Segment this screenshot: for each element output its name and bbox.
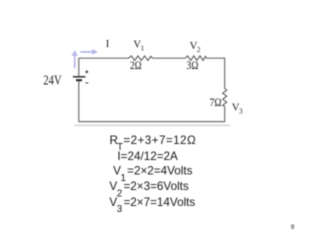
current arrow up <box>72 50 78 68</box>
svg-text:V3: V3 <box>232 102 243 116</box>
wire between R1 and R2 <box>153 57 186 59</box>
svg-text:V1: V1 <box>133 39 144 53</box>
svg-text:V3=2×7=14Volts: V3=2×7=14Volts <box>109 196 195 215</box>
svg-text:V2: V2 <box>190 40 201 54</box>
wire top-left to R1 <box>79 58 129 77</box>
battery B1 short plate (-) <box>76 79 82 81</box>
faint picture-border line below circuit <box>75 124 231 126</box>
svg-text:24V: 24V <box>43 72 61 87</box>
resistor R2 3ohm zigzag <box>185 56 206 61</box>
resistor R3 7ohm zigzag <box>223 89 227 107</box>
svg-text:7Ω: 7Ω <box>210 97 222 109</box>
svg-text:2Ω: 2Ω <box>130 60 142 72</box>
svg-text:I=24/12=2A: I=24/12=2A <box>117 150 178 163</box>
wire bottom-right corner to bottom-left <box>79 80 225 121</box>
svg-text:9: 9 <box>291 224 295 231</box>
current arrow right <box>80 49 98 55</box>
resistor R1 2ohm zigzag <box>129 56 153 61</box>
battery minus sign <box>85 82 88 84</box>
svg-text:3Ω: 3Ω <box>186 60 198 72</box>
svg-text:I: I <box>106 39 110 50</box>
battery B1 long plate (+) <box>73 76 86 78</box>
wire top-right corner down to R3 <box>206 58 224 88</box>
battery plus sign <box>85 70 88 73</box>
